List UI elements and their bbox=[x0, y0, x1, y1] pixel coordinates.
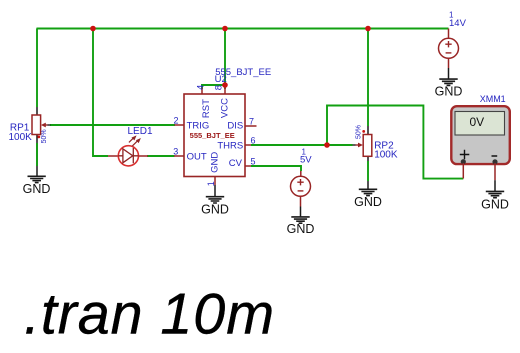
wire THRS to RP2 wiper bbox=[251, 144, 353, 146]
svg-text:2: 2 bbox=[174, 116, 179, 126]
ground under XMM1 bbox=[481, 180, 509, 211]
wire node D to XMM1 plus bbox=[327, 106, 463, 179]
resistor RP1 bbox=[9, 107, 51, 143]
svg-text:GND: GND bbox=[23, 182, 51, 196]
wire top horizontal bbox=[37, 28, 449, 30]
svg-text:OUT: OUT bbox=[187, 152, 207, 163]
wire RP1 wiper to TRIG bbox=[50, 124, 175, 126]
svg-text:555_BJT_EE: 555_BJT_EE bbox=[190, 131, 235, 140]
resistor RP2 bbox=[353, 125, 398, 161]
pin 8 VCC bbox=[214, 85, 231, 118]
svg-text:5V: 5V bbox=[300, 155, 312, 166]
pin 5 CV bbox=[229, 157, 256, 170]
svg-text:LED1: LED1 bbox=[128, 126, 153, 137]
wire VCC vertical from top rail bbox=[224, 29, 226, 90]
pin 2 TRIG bbox=[174, 116, 210, 132]
svg-text:GND: GND bbox=[435, 85, 463, 99]
op-amp U2 555_BJT_EE body bbox=[184, 67, 271, 176]
svg-text:50%: 50% bbox=[41, 129, 48, 143]
ground under 14V bbox=[435, 68, 463, 99]
svg-text:GND: GND bbox=[481, 197, 509, 211]
node C junction dot bbox=[365, 26, 371, 32]
wire left vertical to RP1 bbox=[36, 29, 38, 108]
svg-text:GND: GND bbox=[354, 195, 382, 209]
pin 3 OUT bbox=[173, 147, 207, 163]
voltage source V2 5V bbox=[291, 148, 313, 207]
svg-text:CV: CV bbox=[229, 158, 243, 169]
pin 7 DIS bbox=[227, 117, 256, 132]
voltage source V1 14V bbox=[439, 11, 467, 68]
svg-text:DIS: DIS bbox=[227, 121, 243, 132]
ground under U2 bbox=[201, 185, 229, 217]
svg-text:6: 6 bbox=[251, 136, 256, 146]
wire RP2 lower green bbox=[367, 161, 369, 181]
svg-text:XMM1: XMM1 bbox=[480, 94, 506, 104]
LED LED1 bbox=[108, 126, 153, 166]
wire LED cathode to OUT bbox=[147, 155, 175, 157]
multimeter XMM1 bbox=[451, 94, 510, 180]
ground under RP2 bbox=[354, 181, 382, 209]
svg-text:GND: GND bbox=[287, 222, 315, 236]
svg-text:.tran 10m: .tran 10m bbox=[24, 283, 275, 347]
svg-text:3: 3 bbox=[173, 147, 178, 157]
node A junction dot bbox=[90, 26, 96, 32]
pin 4 RST bbox=[196, 85, 212, 118]
svg-text:VCC: VCC bbox=[220, 98, 231, 118]
node B junction dot bbox=[222, 26, 228, 32]
svg-text:7: 7 bbox=[249, 117, 254, 127]
svg-text:0V: 0V bbox=[470, 115, 485, 129]
wire RP1 lower green bbox=[36, 143, 38, 166]
svg-text:RST: RST bbox=[201, 99, 212, 118]
svg-text:THRS: THRS bbox=[217, 140, 243, 151]
pin 1 GND bbox=[206, 152, 220, 187]
svg-text:GND: GND bbox=[201, 203, 229, 217]
wire top rail to RP2 top bbox=[367, 29, 369, 127]
svg-text:14V: 14V bbox=[449, 18, 467, 29]
svg-text:50%: 50% bbox=[356, 125, 363, 139]
wire CV to 5V source bbox=[251, 166, 301, 171]
wire from node A down to LED anode bbox=[93, 29, 108, 157]
svg-text:100K: 100K bbox=[9, 132, 33, 143]
wire RST to VCC node bbox=[202, 85, 225, 89]
svg-text:100K: 100K bbox=[374, 150, 398, 161]
svg-text:U2: U2 bbox=[215, 74, 227, 85]
svg-text:TRIG: TRIG bbox=[187, 121, 210, 132]
node VCC junction dot bbox=[222, 82, 228, 88]
ground under 5V bbox=[287, 207, 315, 237]
ground under RP1 bbox=[23, 143, 51, 196]
svg-text:5: 5 bbox=[251, 157, 256, 167]
svg-text:GND: GND bbox=[209, 152, 220, 173]
svg-text:4: 4 bbox=[196, 85, 207, 90]
svg-text:8: 8 bbox=[214, 85, 225, 90]
pin 6 THRS bbox=[217, 136, 255, 152]
node D junction dot bbox=[324, 142, 330, 148]
